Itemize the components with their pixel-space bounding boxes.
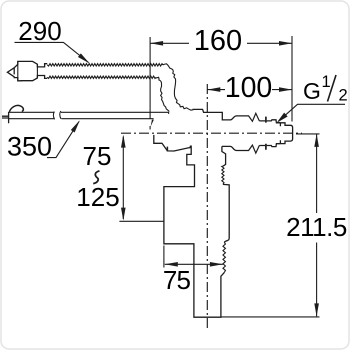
dim 211.5 bottom extension line [221, 316, 320, 318]
dim 160 line [150, 42, 189, 44]
arm upper break zigzag [249, 113, 260, 121]
dim 75-125 tilde [93, 171, 99, 184]
dim 75 extension line [163, 246, 165, 268]
dim 211.5 line [316, 134, 318, 213]
svg-text:1: 1 [322, 73, 331, 91]
svg-text:125: 125 [76, 182, 119, 212]
thin tube 350 break symbol [53, 111, 61, 119]
svg-text:75: 75 [163, 265, 191, 295]
dim 75 left arrow [165, 262, 178, 267]
dim 75 right arrow [210, 262, 223, 267]
dim 290 arrow [78, 53, 90, 63]
flexible hose 290 bend outer edge [163, 64, 194, 110]
dim 75 line [165, 263, 223, 265]
valve body outline [154, 135, 224, 317]
arm upper profile right of break [259, 120, 280, 123]
svg-text:290: 290 [18, 16, 61, 46]
dim 160 left extension line [149, 37, 151, 119]
dim 290 leader [15, 42, 89, 62]
dim 350 leader [47, 122, 79, 158]
arm upper profile near center [193, 109, 250, 120]
arm lower profile right of break [259, 144, 280, 147]
dim 350 arrow [71, 120, 80, 132]
svg-text:211.5: 211.5 [286, 212, 347, 242]
svg-text:G: G [303, 78, 321, 104]
dim 211.5 down arrow [314, 303, 319, 316]
dim 100 left arrow [207, 87, 220, 92]
thin tube 350 retaining clip hook [9, 105, 23, 112]
thin tube 350 left end cap [2, 112, 9, 123]
svg-text:75: 75 [83, 141, 112, 171]
G half male end cap [276, 123, 292, 144]
dim 160 left arrow [150, 41, 163, 46]
flexible hose 290 corrugated bottom edge [47, 76, 156, 78]
svg-text:100: 100 [225, 72, 273, 104]
dim 100 right arrow [279, 87, 292, 92]
flexible hose 290 bend inner edge [156, 77, 169, 111]
arm thread end tick marks [265, 117, 267, 150]
valve body seam tick [166, 147, 168, 152]
dim 160 extension arrow wedge [151, 120, 154, 127]
flexible hose 290 corrugated top edge [47, 64, 163, 66]
dim 75-125 reference line [119, 220, 164, 222]
vertical center line of valve body [206, 84, 208, 331]
dim 75-125 up arrow [121, 135, 126, 148]
hose end connector plug [7, 68, 47, 81]
dim 160 right extension line [291, 36, 293, 122]
dim 160 right arrow [279, 41, 292, 46]
arm lower profile near center [222, 146, 249, 150]
thin tube 350 top edge [9, 112, 169, 114]
dim 100 line [207, 89, 225, 91]
label G1/2 leader [279, 104, 346, 121]
svg-text:2: 2 [339, 87, 348, 105]
dim 75-125 down arrow [121, 208, 126, 221]
label G1/2 arrow [277, 113, 288, 123]
valve body right side middle [223, 184, 229, 242]
svg-text:350: 350 [7, 131, 52, 161]
valve body mid-right thread [222, 166, 224, 184]
valve body lower-right thread [223, 242, 226, 272]
dim 211.5 up arrow [314, 134, 319, 147]
dim 75-125 line [122, 137, 124, 220]
horizontal center line of valve arm [121, 132, 302, 134]
arm lower break zigzag [249, 145, 260, 153]
valve body flange right edge [222, 146, 226, 166]
thin tube 350 bottom edge [9, 118, 154, 120]
dim 211.5 top extension line [296, 133, 320, 135]
svg-text:160: 160 [194, 25, 242, 57]
